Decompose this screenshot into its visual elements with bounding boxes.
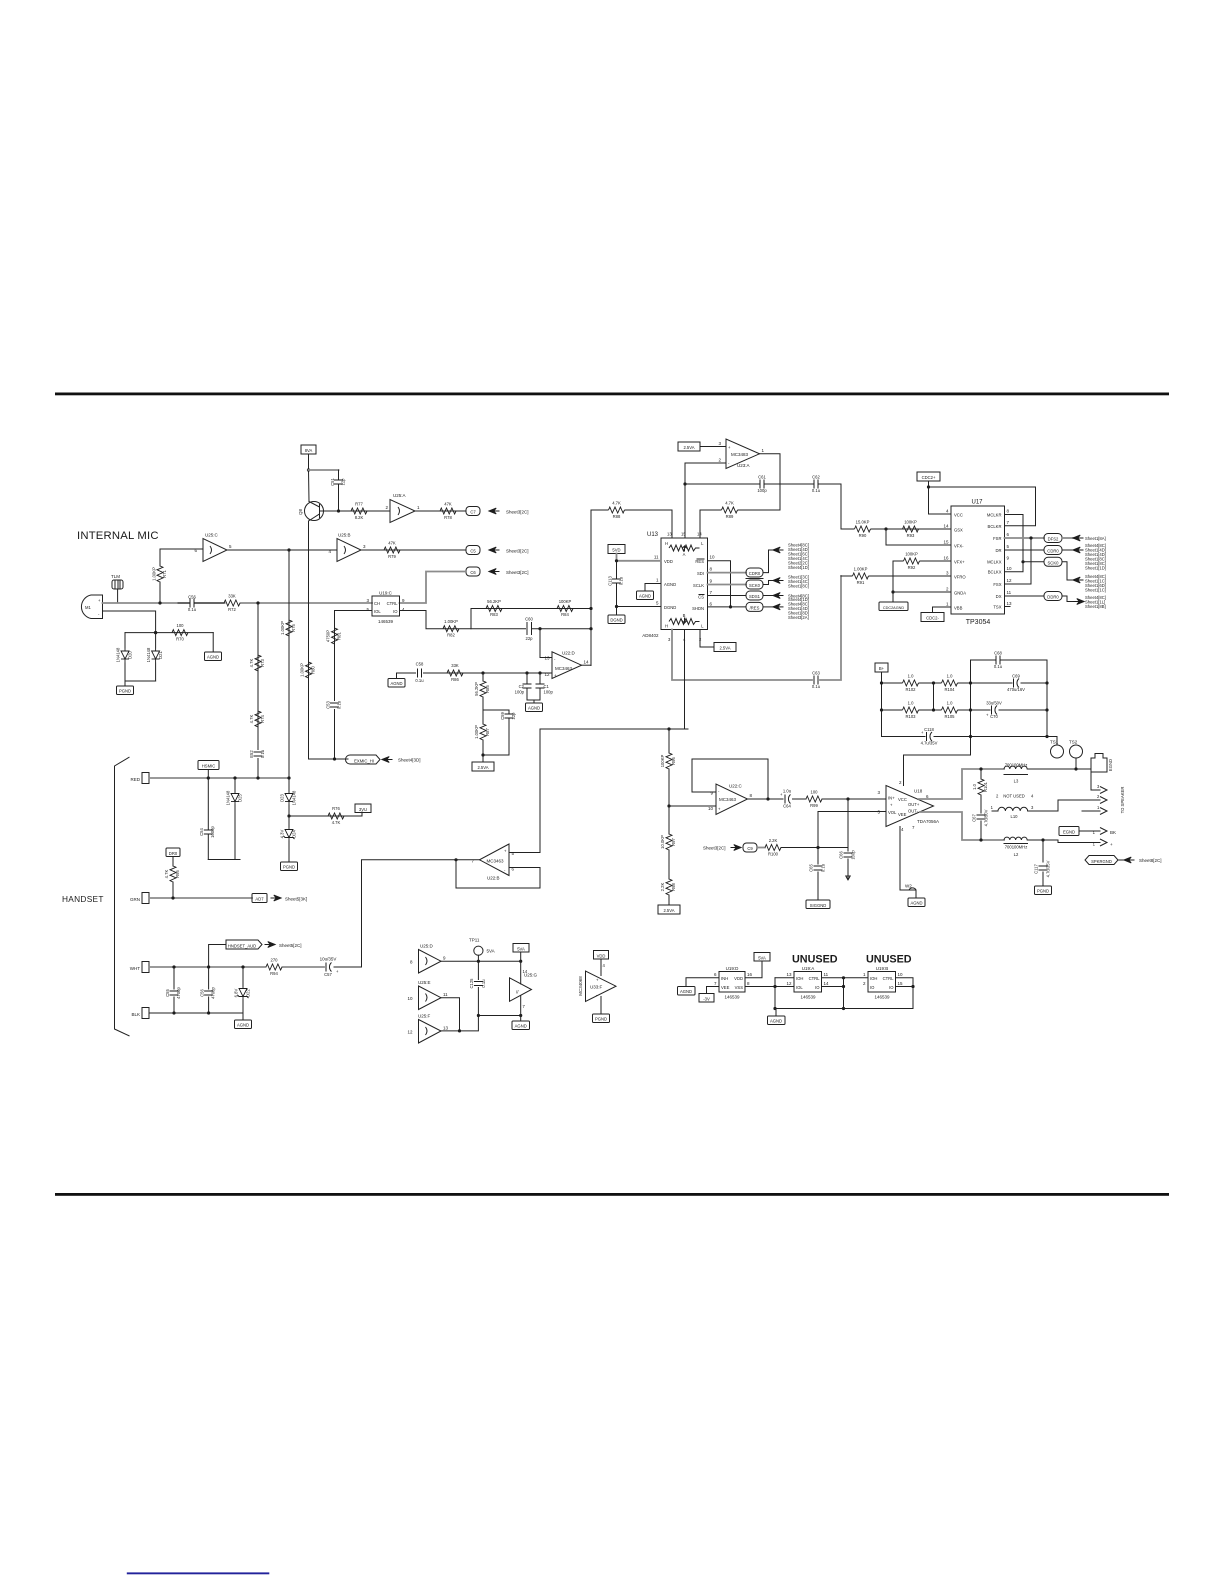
svg-text:BK: BK [1110,830,1116,835]
node RED-D25 [233,776,236,779]
node 1015 right [519,1014,522,1017]
diode D23 1N4148 [280,778,297,816]
node TS2-L3row [1074,767,1077,770]
svg-text:56.2KP: 56.2KP [487,599,501,604]
svg-text:R102: R102 [905,687,916,692]
svg-text:U13: U13 [647,532,659,538]
wire SCK0 to arrow [1062,562,1073,580]
resistor R104 1.0 [936,674,971,693]
resistor R98 2.2K vertical [660,879,676,905]
svg-text:DR: DR [995,548,1001,553]
wire VOL drop [817,812,819,848]
svg-text:L3: L3 [1014,779,1019,784]
wire CS row [708,595,747,597]
svg-text:PGND: PGND [595,1017,607,1022]
svg-text:MCLKR: MCLKR [987,513,1002,518]
svg-text:1.0: 1.0 [947,674,953,679]
tag SPKRGND [1085,856,1118,865]
tag SCK0 mclkx [1044,557,1062,566]
resistor R103 1.0 [882,701,937,720]
svg-text:U25:B: U25:B [338,533,351,538]
node R85 top [481,671,484,674]
svg-text:C65: C65 [809,863,814,871]
tag DR0 [166,848,180,866]
tag DFS2 [1044,534,1062,543]
svg-text:IO: IO [815,985,820,990]
svg-text:Sheet1[8B]: Sheet1[8B] [1085,604,1106,609]
wire FSR row [1005,537,1045,539]
zener D22 6.8V [234,967,251,1013]
svg-text:C66: C66 [839,850,844,858]
wire U22:B feedback [456,860,540,888]
svg-text:C118: C118 [924,727,934,732]
node U25EF join [458,1029,461,1032]
op-amp U22:B [471,844,514,881]
svg-text:VFRO: VFRO [954,575,966,580]
svg-text:C1: C1 [544,684,550,689]
wire U19:B io stub [896,986,914,988]
capacitor C65 0.1u vertical [809,848,826,901]
svg-text:Sheet3[2C]: Sheet3[2C] [506,570,529,575]
IC U13 AD8402 [642,532,715,643]
node 5VA row [519,960,522,963]
node U22C out [766,797,769,800]
svg-text:MCLKX: MCLKX [987,560,1002,565]
svg-text:4.7K: 4.7K [725,501,734,506]
svg-text:VOL: VOL [888,810,897,815]
svg-text:R94: R94 [270,971,278,976]
svg-text:0.1u: 0.1u [821,863,826,872]
wire DGND row [617,606,662,608]
wire SCLK row [708,584,747,586]
svg-text:5VA: 5VA [517,946,525,951]
wire SCK0 arrow link [763,581,773,585]
svg-text:H: H [665,624,668,629]
svg-text:5VD: 5VD [612,548,620,553]
svg-text:10: 10 [898,972,904,977]
inductor L3 700@100MHz [1004,763,1091,784]
svg-text:700100MHz: 700100MHz [1005,845,1028,850]
svg-text:OUT+: OUT+ [908,802,920,807]
svg-text:GRN: GRN [130,897,140,902]
node rail590-R82row [589,627,592,630]
svg-text:8.2K: 8.2K [355,515,364,520]
svg-text:VFX-: VFX- [954,544,964,549]
node WHT-hndaud [207,965,210,968]
power CDC2- [921,607,951,622]
svg-text:R79: R79 [388,554,396,559]
svg-text:MC3463: MC3463 [719,797,737,802]
svg-text:DX: DX [996,594,1002,599]
svg-text:U25:E: U25:E [418,980,431,985]
wire GRN row [149,897,252,899]
node rail289 on U25B wire [287,548,290,551]
resistor R83 56.2KP [486,599,502,617]
svg-text:R74: R74 [260,714,265,722]
wire U19:C IOL to rail334 [335,611,373,621]
svg-text:R81: R81 [337,631,342,639]
svg-text:TSX: TSX [993,605,1001,610]
svg-text:AGND: AGND [910,901,922,906]
node rail334 exmic [333,757,336,760]
svg-text:-3V: -3V [703,996,710,1001]
gnd CDC2AGND [879,602,908,611]
wire U13 pin3 C63 row [672,576,841,680]
bottom horizontal rule [55,1193,1169,1196]
svg-text:Sheet3[2C]: Sheet3[2C] [506,510,529,515]
svg-text:3VU: 3VU [359,807,367,812]
node r103-r105 [932,708,935,711]
svg-text:R84: R84 [561,612,569,617]
wire U25:B out [361,549,466,551]
svg-text:1.00KP: 1.00KP [444,619,458,624]
svg-text:11: 11 [1007,590,1012,595]
svg-text:CDR0: CDR0 [749,571,761,576]
node row729-R96 [667,727,670,730]
wire DX row [1005,595,1045,597]
wire 8VA to C51 [309,469,339,471]
svg-text:4.7u/35V: 4.7u/35V [921,741,938,746]
svg-text:C62: C62 [812,475,820,480]
wire U22:D in+ row [404,672,552,674]
svg-text:Sheet1[8A]: Sheet1[8A] [1085,536,1106,541]
wire U22:C out [748,798,784,800]
svg-text:R87: R87 [485,727,490,735]
svg-text:U25:A: U25:A [393,493,406,498]
svg-text:4.3V: 4.3V [280,829,285,838]
gnd EGND box [1059,827,1100,836]
wire TDA vcc riser [904,755,971,786]
node RES-SHDN [729,605,732,608]
op-amp U25:D [410,944,446,974]
svg-text:MC3463: MC3463 [486,859,504,864]
node C2 top [525,671,528,674]
svg-text:NOT USED: NOT USED [1003,794,1025,799]
svg-text:100p: 100p [544,690,554,695]
svg-text:R80: R80 [311,665,316,673]
gnd AGND c1c2 [526,700,543,712]
gnd AGND mic [205,633,222,661]
wire mic minus drop [103,611,156,633]
svg-text:U22:C: U22:C [729,784,743,789]
svg-text:C69: C69 [1012,674,1020,679]
resistor R96 100KP vertical [660,729,676,806]
resistor R93 100KP [903,520,919,539]
svg-text:R83: R83 [490,612,498,617]
svg-text:PGND: PGND [119,689,131,694]
capacitor C63 0.1u [812,671,821,690]
svg-text:Sheet4[1D]: Sheet4[1D] [788,565,809,570]
wire U13 pin4 drop [684,630,686,730]
node R100-C65 [816,846,819,849]
resistor R94 270 [266,958,282,977]
capacitor C125 0.1u vertical [469,961,486,1015]
svg-text:CTRL: CTRL [883,976,895,981]
wire rail334 [334,620,336,759]
wire BLK row [149,1012,243,1014]
svg-text:U19:A: U19:A [802,966,815,971]
svg-text:U19:D: U19:D [726,966,740,971]
svg-text:AGND: AGND [515,1024,527,1029]
svg-text:MC34068: MC34068 [578,976,583,996]
capacitor C53 0.1u vertical [326,700,342,709]
node rrail-710 [1045,708,1048,711]
svg-text:22p: 22p [526,636,534,641]
svg-text:U17: U17 [971,500,983,506]
svg-text:R76: R76 [332,806,340,811]
svg-text:C58: C58 [416,662,424,667]
node R101 top [979,767,982,770]
svg-text:VDD: VDD [664,559,673,564]
wire MCLKX row [1023,561,1044,563]
resistor R87 1.00KP vertical [474,724,490,762]
svg-text:SHDN: SHDN [692,606,704,611]
wire SDI row [708,572,747,574]
svg-text:1.0: 1.0 [908,701,914,706]
wire TDA out- [920,812,1004,840]
svg-text:DFS2: DFS2 [1048,537,1059,542]
capacitor C69 470u/16V [971,674,1048,693]
svg-text:BCLKX: BCLKX [988,570,1002,575]
svg-text:1N4148: 1N4148 [116,647,121,662]
svg-text:VDD: VDD [597,953,606,958]
node FSR-FSX [1029,536,1032,539]
resistor R90 15.0KP [855,520,871,539]
node mic-D21 [154,631,157,634]
svg-text:0.1u: 0.1u [994,664,1003,669]
wire U19:A io stub [822,986,844,988]
wire rail775 [774,978,776,1009]
op-amp U25:E [407,980,448,1010]
svg-text:Sheet4[3D]: Sheet4[3D] [398,758,421,763]
wire RED row [149,777,289,779]
resistor R99 100 [806,790,886,809]
svg-text:R82: R82 [447,633,455,638]
wire bias row 632 [125,632,213,634]
node C117 l2row [1041,838,1044,841]
capacitor C60 22p [525,617,533,642]
sheet arrow DX cluster [1073,595,1106,609]
svg-text:Sheet1[8C]: Sheet1[8C] [788,584,809,589]
svg-text:U25:C: U25:C [205,533,219,538]
zener D24 4.3V [280,816,297,862]
tag HSMIC [198,761,219,779]
wire U22:B out [362,859,480,861]
svg-text:Sheet1[1C]: Sheet1[1C] [1085,588,1106,593]
node B+ r102 [880,681,883,684]
svg-text:47K: 47K [444,502,452,507]
node B+ r103 [880,708,883,711]
capacitor C67 4.7u/50V vertical [972,809,989,840]
capacitor C62 0.1u [812,475,821,494]
wire bottom bus [775,1008,913,1010]
svg-text:R77: R77 [355,502,363,507]
svg-text:47K: 47K [388,541,396,546]
svg-text:R99: R99 [810,803,818,808]
svg-text:100: 100 [177,623,185,628]
tag DDR0 dx [1044,592,1062,601]
svg-text:4.7K: 4.7K [164,869,169,878]
amplifier U18 TDA7056A [877,780,939,832]
capacitor C51 12p vertical [330,470,346,511]
svg-text:1.00KP: 1.00KP [152,567,157,581]
svg-text:R88: R88 [613,514,621,519]
speaker pin BK [1093,828,1116,836]
tag C7 [466,507,480,516]
wire SHDN row [708,606,747,608]
node CDC2 loop [927,485,930,488]
capacitor C59 22p vertical [483,710,516,755]
svg-text:C5: C5 [470,548,476,553]
gnd AGND w2 [908,890,925,907]
svg-text:D22: D22 [246,988,251,996]
resistor R100 2.2K [765,838,848,857]
svg-text:56.2KP: 56.2KP [474,682,479,696]
wire MCLKR to BCLKX [1005,515,1024,572]
op-amp U33:F MC34068 [578,971,616,1002]
wire B+ rail [881,672,883,737]
svg-text:146539: 146539 [800,995,816,1000]
svg-text:11: 11 [824,972,829,977]
svg-text:270: 270 [271,958,279,963]
svg-text:100KP: 100KP [905,552,918,557]
svg-text:AGND: AGND [237,1023,249,1028]
power 5VA box [513,944,529,962]
tag C6 [466,567,480,576]
svg-text:4700p: 4700p [176,987,181,999]
svg-text:Sheet8[2C]: Sheet8[2C] [1139,858,1162,863]
power -3V [699,987,719,1003]
svg-text:1.00KP: 1.00KP [474,725,479,739]
capacitor C64 1.0u [780,789,806,809]
svg-text:470u/16V: 470u/16V [1007,687,1025,692]
capacitor C70 33u/50V [971,701,1048,720]
capacitor C56 0.1u [178,595,225,613]
node D21 top [154,631,157,634]
tag CDR0 dr [1044,546,1062,555]
svg-text:146539: 146539 [724,995,740,1000]
wire U23:A out [760,454,781,510]
svg-text:CDC2AGND: CDC2AGND [883,606,905,610]
analog switch U19:B [863,966,903,1000]
svg-text:IO: IO [870,985,875,990]
svg-text:R97: R97 [671,837,676,845]
wire VFX+ drop [892,561,894,602]
svg-text:R72: R72 [228,607,236,612]
diode D25 1N4148 [226,778,243,860]
svg-text:U22:B: U22:B [487,876,500,881]
svg-text:HANDSET: HANDSET [62,894,104,904]
node RED-hsmic [207,776,210,779]
power 5VD [608,545,625,554]
resistor R81 4750P vertical [326,628,342,644]
wire U19:A ctrl row [822,977,869,979]
resistor R82 1.00KP [443,619,459,638]
sheet arrow SDI cluster [773,543,809,571]
op-amp U25:F [407,1014,448,1044]
svg-text:11: 11 [654,555,659,560]
svg-text:H: H [665,541,668,546]
sheet arrow EXMIC_HI [382,757,421,763]
gnd AGND u13 [637,584,662,600]
svg-text:UNUSED: UNUSED [866,954,912,966]
svg-text:U22:D: U22:D [562,651,576,656]
svg-text:C61: C61 [758,475,766,480]
svg-text:RES: RES [695,559,704,564]
svg-text:1.0u: 1.0u [783,789,792,794]
svg-text:10: 10 [407,996,413,1001]
speaker pin 3 [1091,772,1107,794]
svg-text:14: 14 [523,969,528,974]
capacitor C117 4.7u/35V vertical [1034,860,1051,886]
svg-text:TO SPEAKER: TO SPEAKER [1120,787,1125,814]
svg-text:5VA: 5VA [758,955,766,960]
capacitor C1 100p [527,673,553,700]
svg-text:RED: RED [130,777,140,782]
svg-text:1N4148: 1N4148 [292,790,297,805]
gnd PGND d24 [281,862,298,871]
power 2.5VA u23 [678,441,726,451]
sheet arrow DFS2 [1062,535,1106,541]
wire U19:A ioh stub [775,977,794,979]
svg-text:R78: R78 [444,515,452,520]
svg-text:16: 16 [943,556,949,561]
analog switch U19:A [786,966,829,1000]
svg-text:2.5VA: 2.5VA [477,765,488,770]
gnd PGND u33 [593,1014,610,1023]
svg-text:4.7K: 4.7K [249,714,254,723]
connector pin RED [130,773,149,784]
svg-text:0.1u: 0.1u [337,700,342,709]
svg-text:PGND: PGND [283,865,295,870]
node R99-C66 [846,797,849,800]
wire U19:C IO loop [400,611,592,629]
node U22:B fb [454,858,457,861]
gnd AGND bus [768,1009,786,1025]
svg-text:DGND: DGND [664,605,676,610]
wire r102 mid link [933,683,935,710]
node rail913 io [911,985,914,988]
svg-text:U19:C: U19:C [379,591,393,596]
node midrail-736 [969,735,972,738]
svg-text:R103: R103 [905,714,916,719]
svg-text:2.2K: 2.2K [660,882,665,891]
svg-text:R101: R101 [983,781,988,792]
gnd DGND u13 [608,607,625,624]
svg-text:C70: C70 [990,714,998,719]
resistor R78 47K [440,502,456,521]
tag /RES shdn [746,602,763,611]
node BLK-C55 [172,1011,175,1014]
svg-text:FSR: FSR [993,536,1001,541]
svg-text:C64: C64 [783,804,791,809]
analog switch U19:C [366,591,405,625]
svg-text:C68: C68 [994,651,1002,656]
wire VOL row [818,811,886,813]
svg-text:100KP: 100KP [559,599,572,604]
svg-text:13: 13 [786,972,792,977]
wire CDC2+ rail [929,481,952,514]
resistor R92 100KP [893,552,951,571]
svg-text:13: 13 [667,532,672,537]
svg-text:CDC2-: CDC2- [926,616,939,621]
power 2.5VA u13 [714,643,736,652]
svg-text:C113: C113 [608,575,613,585]
svg-text:C56: C56 [188,595,196,600]
resistor R77 8.2K [351,502,367,521]
svg-text:4.7K: 4.7K [332,820,341,825]
svg-text:C59: C59 [500,711,505,719]
